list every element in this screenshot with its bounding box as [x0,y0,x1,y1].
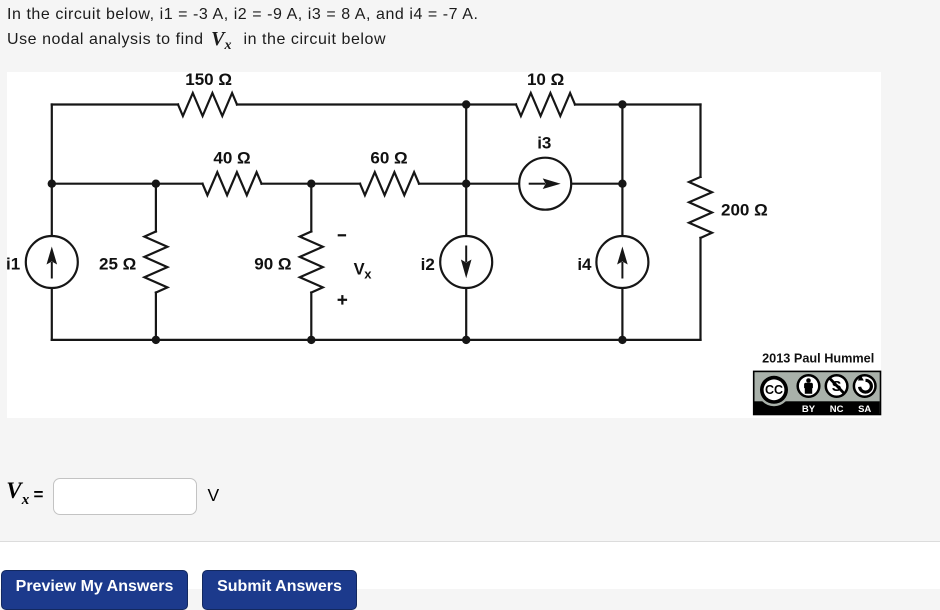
wire top-right segment [575,103,701,105]
buttons [1,570,188,610]
wire i2 branch upper [465,105,467,237]
svg-text:150 Ω: 150 Ω [185,70,232,89]
wire left vertical upper [51,105,53,237]
svg-text:i2: i2 [421,255,435,274]
answer input row [0,0,1,1]
wire left vertical lower [51,288,53,340]
junction node bot-i4 [618,336,626,344]
resistor R 150ohm [178,93,237,116]
junction node bot-25ohm [152,336,160,344]
svg-text:2013 Paul Hummel: 2013 Paul Hummel [762,352,874,366]
svg-text:NC: NC [830,404,844,415]
svg-text:90 Ω: 90 Ω [254,255,291,274]
svg-text:i4: i4 [577,255,592,274]
svg-text:25 Ω: 25 Ω [99,255,136,274]
wire 90ohm bottom lead [310,293,312,340]
svg-text:CC: CC [765,383,783,397]
wire middle segment C [419,183,519,185]
junction node bot-i2 [462,336,470,344]
wire bottom [52,339,701,341]
NC icon circle [826,375,848,397]
CC license badge [754,371,881,414]
current source i1 circle [26,236,78,288]
svg-text:i1: i1 [6,255,20,274]
resistor R 60ohm [360,172,419,195]
svg-text:10 Ω: 10 Ω [527,70,564,89]
label minus sign [338,234,346,236]
wire 25ohm bottom lead [155,293,157,340]
i4 arrow (up) [621,262,623,279]
wire right vertical upper [699,105,701,177]
junction node top-i2 [462,100,470,108]
wire right vertical lower [699,238,701,340]
i2 arrow (down) [465,246,467,263]
wire middle segment D [571,183,622,185]
resistor R 200ohm [689,177,712,238]
svg-text:i3: i3 [537,134,551,153]
current source i2 circle [440,236,492,288]
svg-text:V: V [354,261,365,279]
junction node mid-25ohm [152,180,160,188]
svg-text:SA: SA [858,404,871,415]
current source i4 circle [596,236,648,288]
CC logo circle [758,373,791,406]
junction node mid-i2 [462,180,470,188]
wire middle segment A [52,183,203,185]
junction node mid-90ohm [307,180,315,188]
i1 arrow (up) [51,262,53,279]
wire top-left segment [52,103,178,105]
resistor R 40ohm [203,172,262,195]
wire middle segment B [262,183,361,185]
resistor R 10ohm [516,93,575,116]
wire i4 branch lower [621,288,623,340]
BY icon circle [798,375,820,397]
svg-text:BY: BY [802,404,816,415]
junction node top-i4 [618,100,626,108]
label plus sign [338,299,348,301]
svg-text:200 Ω: 200 Ω [721,201,768,220]
svg-text:40 Ω: 40 Ω [213,148,250,167]
wire 25ohm top lead [155,184,157,232]
resistor R 90ohm [300,232,323,293]
i3 arrow (right) [529,183,546,185]
resistor R 25ohm [144,232,167,293]
junction node mid-i4 [618,180,626,188]
wire i2 branch lower [465,288,467,340]
current source i3 circle [519,158,571,210]
SA icon circle [854,375,876,397]
wire top-middle segment [237,103,516,105]
junction node mid-left [48,180,56,188]
svg-text:60 Ω: 60 Ω [370,148,407,167]
svg-text:x: x [364,267,372,282]
BY NC SA labels [802,404,872,415]
wire i4 branch upper [621,105,623,237]
junction node bot-90ohm [307,336,315,344]
wire 90ohm top lead [310,184,312,232]
